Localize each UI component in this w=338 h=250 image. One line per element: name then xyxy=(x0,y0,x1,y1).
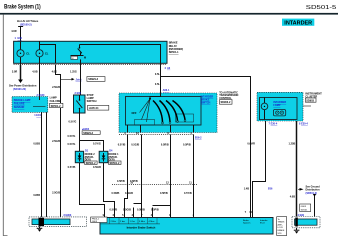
svg-text:0.5P/B: 0.5P/B xyxy=(117,180,125,183)
svg-text:ANTI-: ANTI- xyxy=(278,223,284,226)
svg-text:3.0R: 3.0R xyxy=(12,71,17,74)
svg-text:0.5G/B: 0.5G/B xyxy=(123,208,131,211)
svg-text:SYS: SYS xyxy=(278,233,283,235)
svg-text:FAILURE: FAILURE xyxy=(14,103,25,106)
svg-text:1.25G: 1.25G xyxy=(70,71,77,74)
svg-text:SD501-1: SD501-1 xyxy=(169,51,179,54)
svg-text:2 bnr: 2 bnr xyxy=(120,220,125,223)
svg-text:SD903: SD903 xyxy=(306,99,314,102)
svg-text:Intarder Brake Switch: Intarder Brake Switch xyxy=(127,226,156,230)
svg-text:2 Eks: 2 Eks xyxy=(111,221,117,223)
svg-text:0.5Y/G: 0.5Y/G xyxy=(93,143,101,146)
svg-text:0.5Y/G: 0.5Y/G xyxy=(68,135,76,138)
svg-text:E06: E06 xyxy=(18,37,23,40)
svg-text:SD929-2: SD929-2 xyxy=(83,132,93,135)
svg-text:0.85B: 0.85B xyxy=(33,143,40,146)
svg-text:M: M xyxy=(84,56,86,59)
svg-text:4 Mns: 4 Mns xyxy=(149,221,156,223)
svg-text:INTARDER: INTARDER xyxy=(284,20,312,26)
svg-text:4.0G: 4.0G xyxy=(52,71,57,74)
svg-text:BRAKE: BRAKE xyxy=(278,229,285,232)
svg-text:0.5P/B: 0.5P/B xyxy=(183,144,191,147)
svg-text:A66-1: A66-1 xyxy=(163,89,170,92)
svg-text:5 Mns: 5 Mns xyxy=(139,221,146,223)
svg-text:0.85B: 0.85B xyxy=(33,194,40,197)
svg-text:Hot At All Times: Hot At All Times xyxy=(17,19,39,23)
svg-text:0.5R/B: 0.5R/B xyxy=(137,208,145,211)
svg-text:4.0R: 4.0R xyxy=(11,30,16,33)
svg-text:SD501: SD501 xyxy=(301,209,308,211)
svg-text:8 E30-4: 8 E30-4 xyxy=(299,123,308,126)
svg-text:0.5Y/B: 0.5Y/B xyxy=(110,208,118,211)
svg-text:SD929-3: SD929-3 xyxy=(88,78,98,81)
svg-text:LAMP: LAMP xyxy=(273,104,280,107)
svg-text:2.5G/B: 2.5G/B xyxy=(52,191,60,194)
svg-text:SD501-2: SD501-2 xyxy=(51,105,61,108)
svg-text:FAILURE: FAILURE xyxy=(50,100,61,103)
svg-text:E06: E06 xyxy=(268,188,273,191)
svg-text:OFF: OFF xyxy=(132,112,137,115)
svg-text:SD501-2: SD501-2 xyxy=(110,162,120,165)
svg-text:0.5G/B: 0.5G/B xyxy=(93,166,101,169)
svg-text:SD903-2: SD903-2 xyxy=(221,101,231,104)
svg-text:LOCK: LOCK xyxy=(278,227,284,229)
svg-text:7 E30-4: 7 E30-4 xyxy=(269,123,278,126)
svg-text:1 Onr: 1 Onr xyxy=(130,220,136,223)
svg-text:SENSOR: SENSOR xyxy=(14,106,25,109)
svg-text:ECU: ECU xyxy=(260,223,265,225)
svg-text:0.5G/B: 0.5G/B xyxy=(125,192,133,195)
svg-text:2.5G/B: 2.5G/B xyxy=(52,86,60,89)
svg-text:0.5G/B: 0.5G/B xyxy=(131,144,139,147)
svg-text:0.5Y/B: 0.5Y/B xyxy=(68,166,76,169)
svg-text:0.5P/B: 0.5P/B xyxy=(151,208,159,211)
svg-text:SWITCH: SWITCH xyxy=(87,100,97,103)
svg-text:Brake: Brake xyxy=(243,219,249,222)
svg-text:SD501-2: SD501-2 xyxy=(86,162,96,165)
svg-text:CL: CL xyxy=(45,53,49,56)
svg-text:0.5L: 0.5L xyxy=(155,83,160,86)
svg-text:Brake System (1): Brake System (1) xyxy=(4,4,41,10)
svg-text:(SD100-20): (SD100-20) xyxy=(13,88,26,91)
svg-text:2.5G/B: 2.5G/B xyxy=(52,140,60,143)
svg-text:SD501-5: SD501-5 xyxy=(306,5,337,11)
svg-text:0.5R/B: 0.5R/B xyxy=(112,192,120,195)
svg-text:System: System xyxy=(243,222,250,225)
svg-text:1.4B: 1.4B xyxy=(244,188,249,191)
svg-text:SWITCH: SWITCH xyxy=(201,102,211,105)
svg-text:G903: G903 xyxy=(92,221,98,223)
svg-text:1.25B: 1.25B xyxy=(289,143,296,146)
svg-text:E06-2: E06-2 xyxy=(195,137,202,140)
svg-text:0.6V/R: 0.6V/R xyxy=(247,143,255,146)
svg-text:4.0B: 4.0B xyxy=(32,71,37,74)
svg-text:0.5Y/G: 0.5Y/G xyxy=(69,121,77,124)
svg-text:0.5Y/G: 0.5Y/G xyxy=(68,143,76,146)
svg-text:0.5L: 0.5L xyxy=(155,73,160,76)
svg-text:Intarder: Intarder xyxy=(260,219,268,222)
svg-text:0.5Y/B: 0.5Y/B xyxy=(184,192,192,195)
svg-text:BRAKE LAMP: BRAKE LAMP xyxy=(14,99,31,102)
svg-text:3 E903: 3 E903 xyxy=(63,214,72,217)
svg-text:LE05-04: LE05-04 xyxy=(89,107,99,110)
svg-text:0.5Y/B: 0.5Y/B xyxy=(118,144,126,147)
svg-text:4.0B: 4.0B xyxy=(290,195,295,198)
svg-text:0.5R/B: 0.5R/B xyxy=(161,144,169,147)
svg-text:0.5P/B: 0.5P/B xyxy=(160,192,168,195)
svg-text:1 E04: 1 E04 xyxy=(34,114,41,117)
svg-text:G903: G903 xyxy=(301,206,307,208)
svg-text:TRANS: TRANS xyxy=(278,221,285,224)
svg-text:CL: CL xyxy=(26,53,30,56)
